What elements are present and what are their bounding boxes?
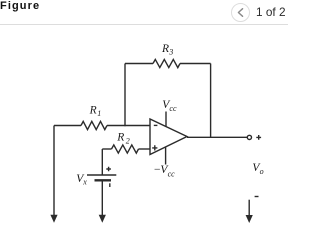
svg-text:2: 2: [126, 136, 130, 145]
wire: feedback right vertical to output node: [210, 64, 212, 138]
wire: feedback top right segment: [180, 63, 211, 65]
header divider: [0, 24, 288, 25]
wire: down to source Vx top: [101, 149, 103, 175]
resistor R2: [112, 145, 139, 153]
svg-text:R: R: [89, 104, 97, 116]
wire: feedback top left segment: [125, 63, 153, 65]
resistor R3: [153, 59, 180, 67]
wire: feedback left vertical: [124, 64, 126, 127]
wire: op-amp output to terminal: [187, 136, 247, 138]
wire: corner to R2: [102, 148, 111, 150]
prev-page button (chevron in circle): [231, 3, 250, 22]
svg-text:o: o: [260, 167, 264, 176]
label R2: [116, 132, 129, 146]
svg-text:x: x: [82, 178, 87, 187]
label Vcc: [162, 99, 177, 113]
label R3: [161, 43, 173, 57]
label -Vcc: [154, 164, 175, 178]
ground arrow (left node): [50, 215, 57, 223]
voltage source Vx (battery): [87, 175, 116, 180]
label Vx: [76, 173, 87, 187]
ground arrow (output reference): [246, 215, 253, 223]
polarity tick of Vx: [109, 183, 111, 187]
wire: R1 to op-amp inverting input (node with R3 leg): [107, 125, 150, 127]
output - polarity: [255, 196, 259, 198]
label R1: [89, 104, 102, 118]
ground arrow (left reference, under Vx): [99, 215, 106, 223]
wire: Vcc stub: [165, 112, 167, 128]
wire: R2 to op-amp non-inverting input: [139, 148, 151, 150]
wire: source Vx to ground arrow: [101, 180, 103, 215]
svg-text:cc: cc: [169, 104, 177, 113]
wire: output reference arrow: [248, 200, 250, 216]
svg-text:cc: cc: [168, 170, 176, 179]
op-amp U1: [150, 119, 187, 155]
wire: left node horizontal to R1: [54, 125, 81, 127]
wire: left node down to ground arrow: [53, 126, 55, 216]
header title "Figure": [0, 0, 40, 13]
svg-text:R: R: [161, 43, 169, 55]
resistor R1: [81, 121, 107, 129]
polarity + of Vx: [106, 167, 111, 172]
label Vo: [252, 162, 263, 176]
wire: -Vcc stub: [165, 147, 167, 164]
svg-text:1: 1: [97, 109, 101, 118]
output terminal circle: [247, 135, 251, 139]
page indicator "1 of 2": [256, 6, 286, 18]
svg-text:R: R: [116, 132, 124, 144]
svg-text:3: 3: [168, 48, 173, 57]
output + polarity: [256, 135, 261, 140]
